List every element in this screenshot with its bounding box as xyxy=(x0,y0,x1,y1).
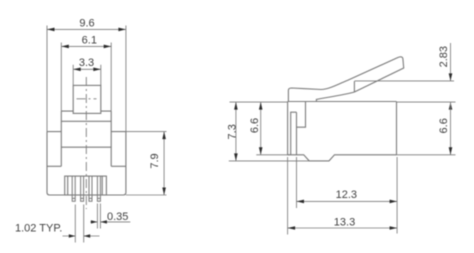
body top xyxy=(288,101,397,103)
svg-text:1.02 TYP.: 1.02 TYP. xyxy=(15,223,62,235)
svg-text:6.1: 6.1 xyxy=(82,35,97,47)
pin 1 xyxy=(72,176,75,201)
dimension 2.83 xyxy=(355,43,454,81)
dimension 13.3 xyxy=(288,157,398,235)
svg-text:3.3: 3.3 xyxy=(79,57,94,69)
side view body outline xyxy=(288,102,397,161)
rear face xyxy=(396,102,398,155)
svg-text:12.3: 12.3 xyxy=(336,189,357,201)
contact blade xyxy=(291,112,297,155)
latch tab (3.3 wide) xyxy=(73,85,101,113)
contact slot step xyxy=(297,102,306,128)
dimension 3.3 xyxy=(73,65,101,86)
dimension 7.3 xyxy=(229,102,309,161)
upper step (6.1 wide) top edges xyxy=(61,111,111,166)
svg-text:13.3: 13.3 xyxy=(334,216,355,228)
front view body outline xyxy=(47,85,126,195)
outer body (9.6 wide) xyxy=(47,132,126,195)
svg-text:7.3: 7.3 xyxy=(226,124,238,139)
dimension 6.1 xyxy=(61,43,111,112)
pin housing xyxy=(65,176,107,195)
pin 2 xyxy=(81,176,84,201)
svg-text:7.9: 7.9 xyxy=(149,153,161,168)
front face xyxy=(287,102,289,155)
svg-text:9.6: 9.6 xyxy=(79,17,94,29)
bottom with contact bump xyxy=(288,155,397,161)
dimension 12.3 xyxy=(297,157,398,234)
dimension 9.6 xyxy=(47,26,126,132)
pin 3 xyxy=(89,176,92,201)
svg-text:6.6: 6.6 xyxy=(438,118,450,133)
dimension 0.35 xyxy=(90,204,130,229)
dimension 7.9 xyxy=(111,132,166,195)
pins xyxy=(72,176,100,201)
dimension 6.6 right xyxy=(397,102,456,155)
dimension 1.02 TYP xyxy=(63,205,100,243)
latch arm and grip xyxy=(288,57,403,102)
centerline front view xyxy=(77,77,97,209)
svg-text:6.6: 6.6 xyxy=(249,118,261,133)
svg-text:2.83: 2.83 xyxy=(438,46,450,67)
dimension 6.6 left xyxy=(256,102,290,155)
pin 4 xyxy=(97,176,100,201)
svg-text:0.35: 0.35 xyxy=(107,211,128,223)
